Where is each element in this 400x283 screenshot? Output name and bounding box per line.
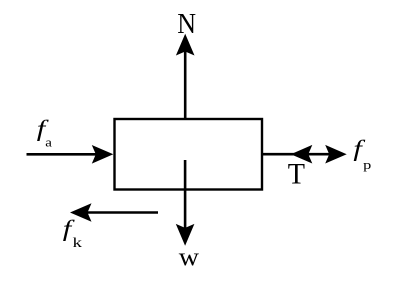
svg-text:k: k [73,234,83,250]
arrow T head (left) [291,145,313,164]
svg-text:a: a [45,136,52,150]
svg-text:N: N [177,8,196,40]
arrow N shaft [184,50,187,119]
arrow w head (down) [176,224,195,246]
arrow f_k shaft [86,211,158,214]
svg-text:T: T [288,158,305,191]
arrow N head [176,34,195,56]
arrow f_k head (left) [70,203,92,222]
svg-text:w: w [179,242,200,270]
arrow w shaft [184,160,187,228]
svg-text:p: p [363,158,371,172]
wire T/f_p shaft [261,153,332,156]
arrow f_p head (right) [325,145,347,164]
arrow f_a shaft [27,153,99,156]
arrow f_a head [92,145,114,164]
block (box) [115,119,263,190]
